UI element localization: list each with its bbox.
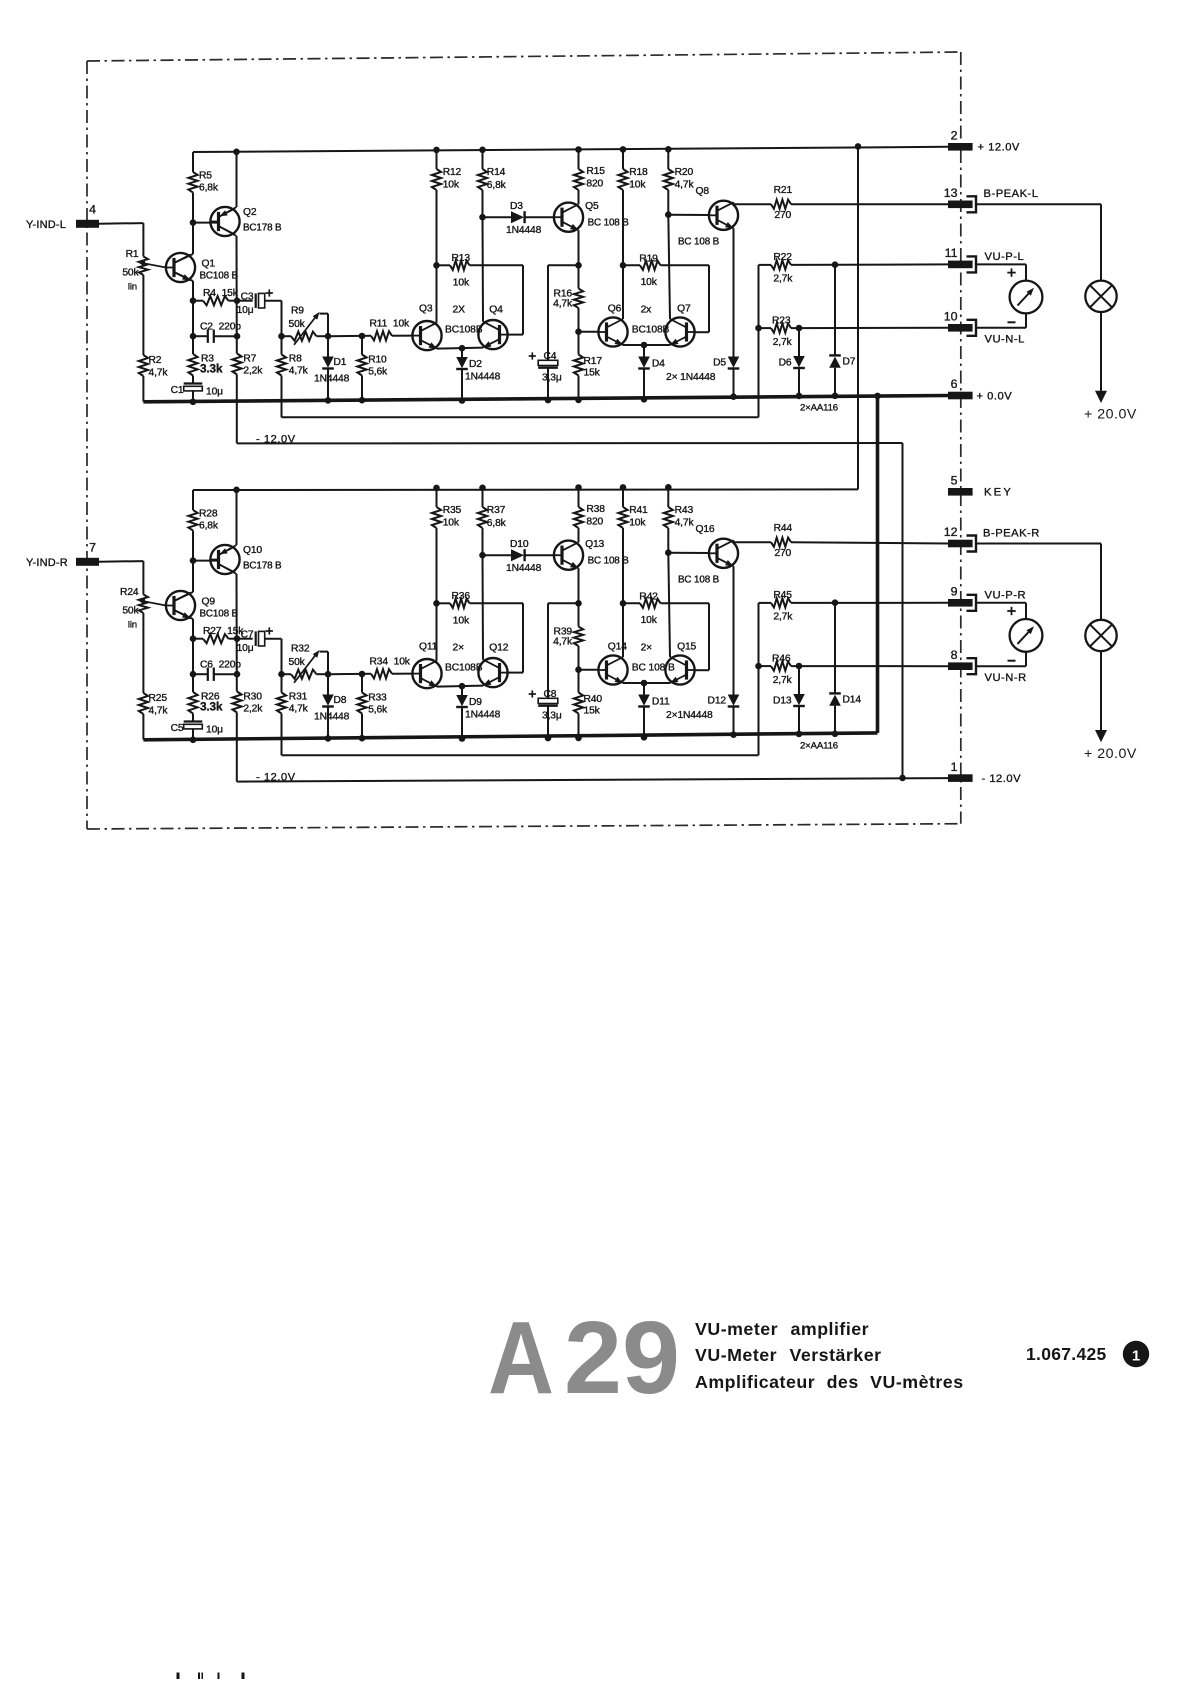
svg-text:7: 7 xyxy=(89,540,96,554)
svg-text:B-PEAK-R: B-PEAK-R xyxy=(983,527,1040,539)
svg-text:R19: R19 xyxy=(639,254,658,265)
svg-text:R38: R38 xyxy=(586,504,605,515)
svg-text:R35: R35 xyxy=(443,505,462,516)
svg-text:R18: R18 xyxy=(629,167,648,178)
svg-text:Q7: Q7 xyxy=(677,303,691,314)
svg-text:10k: 10k xyxy=(641,615,658,626)
svg-text:R43: R43 xyxy=(675,505,694,516)
svg-text:D10: D10 xyxy=(510,539,529,550)
svg-text:3.3k: 3.3k xyxy=(200,362,223,376)
svg-text:R10: R10 xyxy=(368,355,387,366)
svg-text:R20: R20 xyxy=(675,167,694,178)
svg-text:12: 12 xyxy=(944,525,958,539)
svg-text:Q14: Q14 xyxy=(608,641,627,652)
svg-text:29: 29 xyxy=(564,1300,680,1415)
svg-text:10k: 10k xyxy=(641,277,658,288)
svg-text:4,7k: 4,7k xyxy=(289,366,309,377)
svg-text:3,3μ: 3,3μ xyxy=(542,372,562,383)
svg-text:R24: R24 xyxy=(120,587,139,598)
svg-text:2x: 2x xyxy=(641,305,653,316)
svg-text:C8: C8 xyxy=(544,689,557,700)
svg-text:R41: R41 xyxy=(629,505,648,516)
svg-text:C4: C4 xyxy=(544,351,557,362)
svg-text:9: 9 xyxy=(951,585,958,599)
svg-text:820: 820 xyxy=(586,178,603,189)
svg-text:8: 8 xyxy=(951,648,958,662)
svg-text:50k: 50k xyxy=(289,657,306,668)
svg-text:lin: lin xyxy=(128,282,137,293)
svg-text:10μ: 10μ xyxy=(237,643,254,654)
svg-text:D13: D13 xyxy=(773,696,792,707)
svg-text:Q1: Q1 xyxy=(202,258,216,269)
svg-text:R46: R46 xyxy=(772,653,791,664)
svg-text:4,7k: 4,7k xyxy=(149,706,169,717)
svg-text:D11: D11 xyxy=(652,696,670,707)
svg-text:Q5: Q5 xyxy=(585,201,599,212)
svg-text:BC108 B: BC108 B xyxy=(200,271,239,282)
svg-text:BC 108 B: BC 108 B xyxy=(632,663,675,674)
svg-text:BC 108 B: BC 108 B xyxy=(588,556,630,567)
svg-text:Q2: Q2 xyxy=(243,207,257,218)
svg-text:D2: D2 xyxy=(469,359,482,370)
svg-text:BC108B: BC108B xyxy=(445,324,483,335)
svg-text:R11 10k: R11 10k xyxy=(370,319,411,330)
svg-text:6,8k: 6,8k xyxy=(199,183,219,194)
svg-text:- 12.0V: - 12.0V xyxy=(256,433,296,445)
svg-text:1N4448: 1N4448 xyxy=(506,563,542,574)
svg-text:Q12: Q12 xyxy=(489,643,508,654)
svg-text:5,6k: 5,6k xyxy=(368,705,388,716)
svg-text:C1: C1 xyxy=(171,385,184,396)
svg-text:R9: R9 xyxy=(291,306,304,317)
svg-text:1: 1 xyxy=(1132,1348,1140,1365)
svg-text:R15: R15 xyxy=(586,166,605,177)
svg-text:10k: 10k xyxy=(629,180,646,191)
svg-text:R21: R21 xyxy=(774,185,793,196)
svg-text:1: 1 xyxy=(951,760,958,774)
svg-text:15k: 15k xyxy=(584,706,601,717)
svg-text:2×1N4448: 2×1N4448 xyxy=(666,710,713,721)
svg-text:BC108 B: BC108 B xyxy=(200,609,239,620)
svg-text:50k: 50k xyxy=(122,606,139,617)
svg-text:R14: R14 xyxy=(487,167,506,178)
svg-text:R5: R5 xyxy=(199,171,212,182)
svg-text:D12: D12 xyxy=(708,695,727,706)
svg-text:R8: R8 xyxy=(289,354,302,365)
svg-text:4: 4 xyxy=(89,202,96,216)
svg-text:6: 6 xyxy=(951,377,958,391)
svg-text:KEY: KEY xyxy=(984,487,1013,499)
svg-text:BC 108 B: BC 108 B xyxy=(678,237,720,248)
svg-text:15k: 15k xyxy=(584,368,601,379)
svg-text:13: 13 xyxy=(944,186,958,200)
svg-text:5,6k: 5,6k xyxy=(368,367,388,378)
svg-text:D5: D5 xyxy=(713,357,726,368)
svg-text:2,2k: 2,2k xyxy=(243,704,263,715)
svg-text:50k: 50k xyxy=(289,319,306,330)
svg-text:D3: D3 xyxy=(510,201,523,212)
svg-text:Q11: Q11 xyxy=(419,641,438,652)
svg-text:Y-IND-L: Y-IND-L xyxy=(26,219,66,231)
svg-text:1N4448: 1N4448 xyxy=(465,710,501,721)
svg-text:10k: 10k xyxy=(453,278,470,289)
svg-text:R42: R42 xyxy=(639,592,658,603)
svg-text:R27 15k: R27 15k xyxy=(203,626,244,637)
svg-text:C5: C5 xyxy=(171,723,184,734)
svg-text:VU-N-L: VU-N-L xyxy=(985,334,1025,346)
svg-text:R12: R12 xyxy=(443,167,462,178)
svg-text:2× 1N4448: 2× 1N4448 xyxy=(666,372,716,383)
svg-text:R2: R2 xyxy=(149,355,162,366)
svg-text:D4: D4 xyxy=(652,358,665,369)
svg-text:2: 2 xyxy=(951,129,958,143)
svg-text:4,7k: 4,7k xyxy=(675,180,695,191)
svg-text:6,8k: 6,8k xyxy=(487,518,507,529)
svg-text:R22: R22 xyxy=(773,252,792,263)
svg-text:Q3: Q3 xyxy=(419,303,433,314)
svg-text:VU-P-R: VU-P-R xyxy=(985,589,1027,601)
svg-text:R37: R37 xyxy=(487,505,506,516)
svg-text:1N4448: 1N4448 xyxy=(506,225,542,236)
svg-text:Amplificateur des VU-mètres: Amplificateur des VU-mètres xyxy=(695,1372,964,1392)
svg-text:Q4: Q4 xyxy=(489,305,503,316)
svg-text:2×: 2× xyxy=(641,643,653,654)
svg-text:1N4448: 1N4448 xyxy=(314,374,350,385)
svg-text:4,7k: 4,7k xyxy=(553,298,573,309)
svg-text:R28: R28 xyxy=(199,509,218,520)
svg-text:10k: 10k xyxy=(443,180,460,191)
svg-text:10k: 10k xyxy=(629,518,646,529)
svg-text:2×AA116: 2×AA116 xyxy=(800,741,838,752)
svg-text:VU-N-R: VU-N-R xyxy=(985,672,1027,684)
svg-text:Q16: Q16 xyxy=(696,524,715,535)
svg-text:R31: R31 xyxy=(289,692,308,703)
svg-text:2,7k: 2,7k xyxy=(773,337,793,348)
svg-text:2×AA116: 2×AA116 xyxy=(800,403,838,414)
svg-text:C7: C7 xyxy=(241,630,254,641)
svg-text:2,7k: 2,7k xyxy=(773,273,793,284)
svg-text:- 12.0V: - 12.0V xyxy=(256,772,296,784)
svg-text:270: 270 xyxy=(774,210,791,221)
svg-text:10μ: 10μ xyxy=(206,387,223,398)
svg-text:R34 10k: R34 10k xyxy=(370,657,411,668)
svg-text:2,2k: 2,2k xyxy=(243,366,263,377)
svg-text:D9: D9 xyxy=(469,697,482,708)
svg-text:C3: C3 xyxy=(241,292,254,303)
svg-text:D1: D1 xyxy=(334,357,347,368)
svg-text:D8: D8 xyxy=(334,695,347,706)
svg-text:B-PEAK-L: B-PEAK-L xyxy=(984,188,1039,200)
svg-text:2,7k: 2,7k xyxy=(773,611,793,622)
svg-text:10μ: 10μ xyxy=(206,725,223,736)
svg-text:10k: 10k xyxy=(453,616,470,627)
svg-text:R36: R36 xyxy=(452,591,471,602)
svg-text:3,3μ: 3,3μ xyxy=(542,710,562,721)
svg-text:R17: R17 xyxy=(584,356,603,367)
svg-text:6,8k: 6,8k xyxy=(199,521,219,532)
svg-text:Q15: Q15 xyxy=(677,641,696,652)
svg-text:10: 10 xyxy=(944,310,958,324)
svg-text:Q10: Q10 xyxy=(243,545,262,556)
svg-text:R13: R13 xyxy=(452,253,471,264)
svg-text:BC178 B: BC178 B xyxy=(243,223,282,234)
svg-text:820: 820 xyxy=(586,516,603,527)
svg-text:R40: R40 xyxy=(584,694,603,705)
svg-text:BC178 B: BC178 B xyxy=(243,561,282,572)
svg-text:R44: R44 xyxy=(774,523,793,534)
svg-text:Q9: Q9 xyxy=(202,596,216,607)
svg-text:10k: 10k xyxy=(443,518,460,529)
svg-text:4,7k: 4,7k xyxy=(289,704,309,715)
svg-text:50k: 50k xyxy=(122,268,139,279)
svg-text:A: A xyxy=(488,1300,554,1415)
svg-text:2X: 2X xyxy=(453,304,466,315)
svg-text:C2 220p: C2 220p xyxy=(200,322,241,333)
svg-text:10μ: 10μ xyxy=(237,305,254,316)
svg-text:R1: R1 xyxy=(126,249,139,260)
svg-text:D14: D14 xyxy=(843,695,862,706)
svg-text:D7: D7 xyxy=(843,357,856,368)
svg-text:4,7k: 4,7k xyxy=(675,518,695,529)
svg-text:R33: R33 xyxy=(368,693,387,704)
svg-text:4,7k: 4,7k xyxy=(553,636,573,647)
svg-text:4,7k: 4,7k xyxy=(149,368,169,379)
svg-text:C6 220p: C6 220p xyxy=(200,660,241,671)
svg-text:BC 108 B: BC 108 B xyxy=(678,575,720,586)
svg-text:R23: R23 xyxy=(772,315,791,326)
svg-text:5: 5 xyxy=(951,474,958,488)
svg-text:+ 0.0V: + 0.0V xyxy=(977,390,1013,402)
svg-text:2,7k: 2,7k xyxy=(773,675,793,686)
svg-text:1N4448: 1N4448 xyxy=(314,712,350,723)
svg-text:Y-IND-R: Y-IND-R xyxy=(26,557,68,569)
svg-text:VU-P-L: VU-P-L xyxy=(985,251,1025,263)
svg-text:BC 108 B: BC 108 B xyxy=(588,218,630,229)
svg-text:+ 20.0V: + 20.0V xyxy=(1084,746,1137,762)
svg-text:270: 270 xyxy=(774,548,791,559)
svg-text:3.3k: 3.3k xyxy=(200,700,223,714)
svg-text:6,8k: 6,8k xyxy=(487,180,507,191)
svg-text:R32: R32 xyxy=(291,644,310,655)
svg-text:11: 11 xyxy=(945,246,958,260)
svg-text:R30: R30 xyxy=(243,692,262,703)
svg-text:BC108B: BC108B xyxy=(632,325,670,336)
svg-text:+ 12.0V: + 12.0V xyxy=(978,142,1020,154)
svg-text:Q6: Q6 xyxy=(608,303,622,314)
svg-text:1.067.425: 1.067.425 xyxy=(1026,1344,1107,1364)
svg-text:R7: R7 xyxy=(243,354,256,365)
svg-text:- 12.0V: - 12.0V xyxy=(982,773,1022,785)
svg-text:VU-meter amplifier: VU-meter amplifier xyxy=(695,1319,869,1339)
svg-text:Q13: Q13 xyxy=(585,539,604,550)
svg-text:1N4448: 1N4448 xyxy=(465,372,501,383)
svg-text:R45: R45 xyxy=(773,590,792,601)
svg-text:lin: lin xyxy=(128,620,137,631)
svg-text:VU-Meter Verstärker: VU-Meter Verstärker xyxy=(695,1345,882,1365)
svg-text:2×: 2× xyxy=(453,642,465,653)
svg-text:D6: D6 xyxy=(779,358,792,369)
svg-text:BC108B: BC108B xyxy=(445,662,483,673)
svg-text:R4 15k: R4 15k xyxy=(203,288,239,299)
svg-text:Q8: Q8 xyxy=(696,186,710,197)
svg-text:R25: R25 xyxy=(149,693,168,704)
svg-text:+ 20.0V: + 20.0V xyxy=(1084,407,1137,423)
